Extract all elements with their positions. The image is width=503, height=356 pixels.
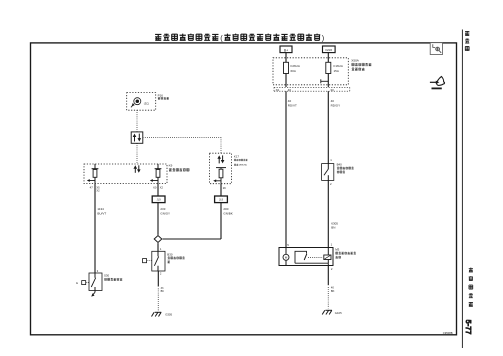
svg-text:X5: X5 xyxy=(96,185,100,189)
svg-text:BN: BN xyxy=(331,226,335,230)
svg-text:GN/BK: GN/BK xyxy=(223,211,232,215)
svg-text:29: 29 xyxy=(223,186,226,190)
svg-text:1134: 1134 xyxy=(97,207,104,211)
svg-text:40: 40 xyxy=(331,99,335,103)
svg-text:IGNR: IGNR xyxy=(325,48,332,52)
svg-text:60: 60 xyxy=(153,185,157,189)
svg-text:(3C): (3C) xyxy=(144,101,149,105)
svg-text:F16UA: F16UA xyxy=(334,64,343,68)
svg-text:BU/VT: BU/VT xyxy=(97,211,106,215)
svg-text:S30: S30 xyxy=(104,274,110,278)
svg-text:RD/GY: RD/GY xyxy=(331,104,341,108)
svg-text:X2: X2 xyxy=(160,185,164,189)
svg-text:B40: B40 xyxy=(337,162,343,166)
svg-text:BK: BK xyxy=(331,289,335,293)
svg-text:B30: B30 xyxy=(167,252,173,256)
svg-text:F26UA: F26UA xyxy=(291,64,300,68)
svg-text:233: 233 xyxy=(160,207,165,211)
svg-text:E: E xyxy=(76,281,78,285)
svg-text:GN/GY: GN/GY xyxy=(160,211,170,215)
svg-text:(EBCM): (EBCM) xyxy=(239,165,247,167)
svg-text:G105: G105 xyxy=(335,311,342,315)
svg-text:40: 40 xyxy=(288,99,292,103)
svg-text:B+: B+ xyxy=(284,48,288,52)
svg-text:M3: M3 xyxy=(335,248,339,252)
svg-text:46: 46 xyxy=(288,88,292,92)
svg-text:P16: P16 xyxy=(158,93,164,97)
svg-text:JL9: JL9 xyxy=(157,199,162,202)
svg-text:5-77: 5-77 xyxy=(464,320,471,335)
svg-text:X2: X2 xyxy=(276,88,280,92)
svg-text:G305: G305 xyxy=(165,312,172,316)
svg-text:): ) xyxy=(322,33,324,42)
svg-text:RD/VT: RD/VT xyxy=(288,104,297,108)
svg-text:200: 200 xyxy=(223,207,228,211)
svg-text:C9508B: C9508B xyxy=(443,331,453,335)
svg-text:K9: K9 xyxy=(169,164,173,168)
svg-text:K17: K17 xyxy=(234,154,240,158)
svg-text:X2: X2 xyxy=(96,189,100,193)
svg-text:33: 33 xyxy=(330,88,334,92)
svg-text:40: 40 xyxy=(331,286,334,290)
svg-text:X50A: X50A xyxy=(351,58,360,62)
svg-text:BK: BK xyxy=(161,290,165,293)
svg-text:47: 47 xyxy=(90,185,94,189)
svg-text:JL9: JL9 xyxy=(219,199,224,202)
svg-text:60A: 60A xyxy=(291,69,296,73)
svg-text:15A: 15A xyxy=(334,69,339,73)
svg-text:M: M xyxy=(285,256,288,260)
